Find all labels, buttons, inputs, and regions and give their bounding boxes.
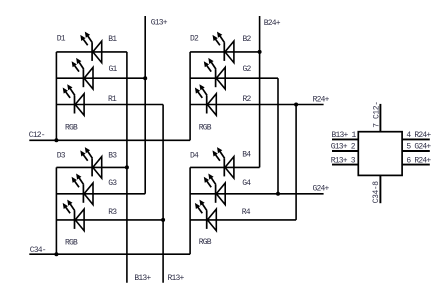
svg-text:B3: B3	[108, 152, 117, 161]
LED B1	[80, 32, 101, 63]
wire B1 row	[56, 51, 127, 53]
svg-text:G13+: G13+	[151, 18, 168, 27]
LED G3	[72, 174, 93, 205]
wire B13+ vertical	[126, 52, 128, 283]
wire R13+ vertical	[162, 105, 164, 283]
wire D1 common left vertical	[55, 52, 57, 140]
wire G13+ vertical	[144, 16, 146, 194]
junction dot B2/B24+	[258, 50, 262, 54]
connector J1 body	[358, 132, 402, 176]
svg-text:7 C12-: 7 C12-	[372, 101, 381, 127]
LED B3	[80, 147, 101, 178]
wire R4 row	[190, 219, 296, 221]
svg-text:B4: B4	[242, 151, 251, 160]
svg-text:4 R24+: 4 R24+	[406, 131, 431, 140]
wire C12- net horizontal	[29, 139, 190, 141]
connector pin 1 wire	[332, 138, 359, 140]
svg-text:D3: D3	[57, 152, 66, 161]
LED R3	[63, 200, 84, 231]
wire C34- net horizontal	[29, 253, 190, 255]
svg-text:B13+ 1: B13+ 1	[332, 131, 357, 140]
svg-text:G3: G3	[108, 179, 117, 188]
wire G3 row	[56, 193, 145, 195]
svg-text:G24+: G24+	[313, 184, 330, 193]
svg-text:R3: R3	[108, 208, 117, 217]
svg-text:C34-: C34-	[30, 246, 46, 255]
svg-text:B24+: B24+	[264, 19, 281, 28]
LED G4	[204, 174, 225, 205]
svg-text:B1: B1	[108, 35, 117, 44]
wire G2-G4 vertical	[277, 78, 279, 194]
svg-text:R4: R4	[242, 208, 251, 217]
svg-text:RGB: RGB	[199, 123, 212, 132]
svg-text:R13+: R13+	[168, 274, 185, 283]
wire G1 row	[56, 77, 145, 79]
wire D4 common left vertical	[189, 167, 191, 254]
junction dot G1/G13+	[143, 76, 147, 80]
connector pin 6 wire	[402, 164, 430, 166]
svg-text:R24+: R24+	[313, 96, 330, 105]
svg-text:R1: R1	[108, 95, 117, 104]
wire B4 row	[190, 166, 260, 168]
wire B24+ vertical	[259, 16, 261, 167]
svg-text:G4: G4	[242, 179, 251, 188]
junction dot B3/B13+	[125, 165, 129, 169]
junction dot C12-/D1	[54, 138, 58, 142]
wire D2 common left vertical	[189, 52, 191, 140]
connector pin 2 wire	[332, 150, 359, 152]
svg-text:B2: B2	[243, 35, 252, 44]
svg-text:6 R24+: 6 R24+	[406, 156, 431, 165]
svg-text:RGB: RGB	[65, 239, 78, 248]
svg-text:G13+ 2: G13+ 2	[331, 143, 356, 152]
svg-text:RGB: RGB	[199, 238, 212, 247]
svg-text:D1: D1	[57, 35, 66, 44]
svg-text:RGB: RGB	[65, 123, 78, 132]
svg-text:C12-: C12-	[29, 131, 45, 140]
wire D3 common left vertical	[55, 167, 57, 254]
LED R4	[195, 200, 216, 231]
junction dot G4 net	[276, 192, 280, 196]
svg-text:5 G24+: 5 G24+	[406, 143, 431, 152]
connector pin 3 wire	[332, 164, 359, 166]
connector pin 8 wire bottom	[379, 175, 381, 203]
svg-text:D4: D4	[190, 152, 199, 161]
LED B2	[213, 32, 234, 63]
wire R2 row and R24+ stub	[190, 104, 324, 106]
svg-text:R13+ 3: R13+ 3	[331, 156, 356, 165]
svg-text:G2: G2	[243, 65, 252, 74]
svg-text:B13+: B13+	[134, 274, 151, 283]
connector pin 4 wire	[402, 138, 430, 140]
junction dot R3/R13+	[161, 218, 165, 222]
svg-text:C34-8: C34-8	[372, 181, 381, 204]
wire G2 row	[190, 77, 278, 79]
svg-text:R2: R2	[243, 95, 252, 104]
LED R2	[195, 84, 216, 115]
wire B2 row	[190, 51, 260, 53]
LED G2	[204, 58, 225, 89]
connector pin 7 wire top	[379, 104, 381, 132]
wire R3 row	[56, 219, 163, 221]
connector pin 5 wire	[402, 150, 430, 152]
svg-text:G1: G1	[109, 65, 118, 74]
junction dot R2/R24+	[294, 103, 298, 107]
wire B3 row	[56, 166, 127, 168]
LED B4	[213, 147, 234, 178]
svg-text:D2: D2	[190, 34, 199, 43]
LED G1	[72, 58, 93, 89]
LED R1	[63, 84, 84, 115]
wire R24+ vertical	[295, 105, 297, 220]
wire G4 row and G24+ stub	[190, 193, 324, 195]
wire R1 row	[56, 104, 163, 106]
junction dot C34-/D3	[54, 252, 58, 256]
